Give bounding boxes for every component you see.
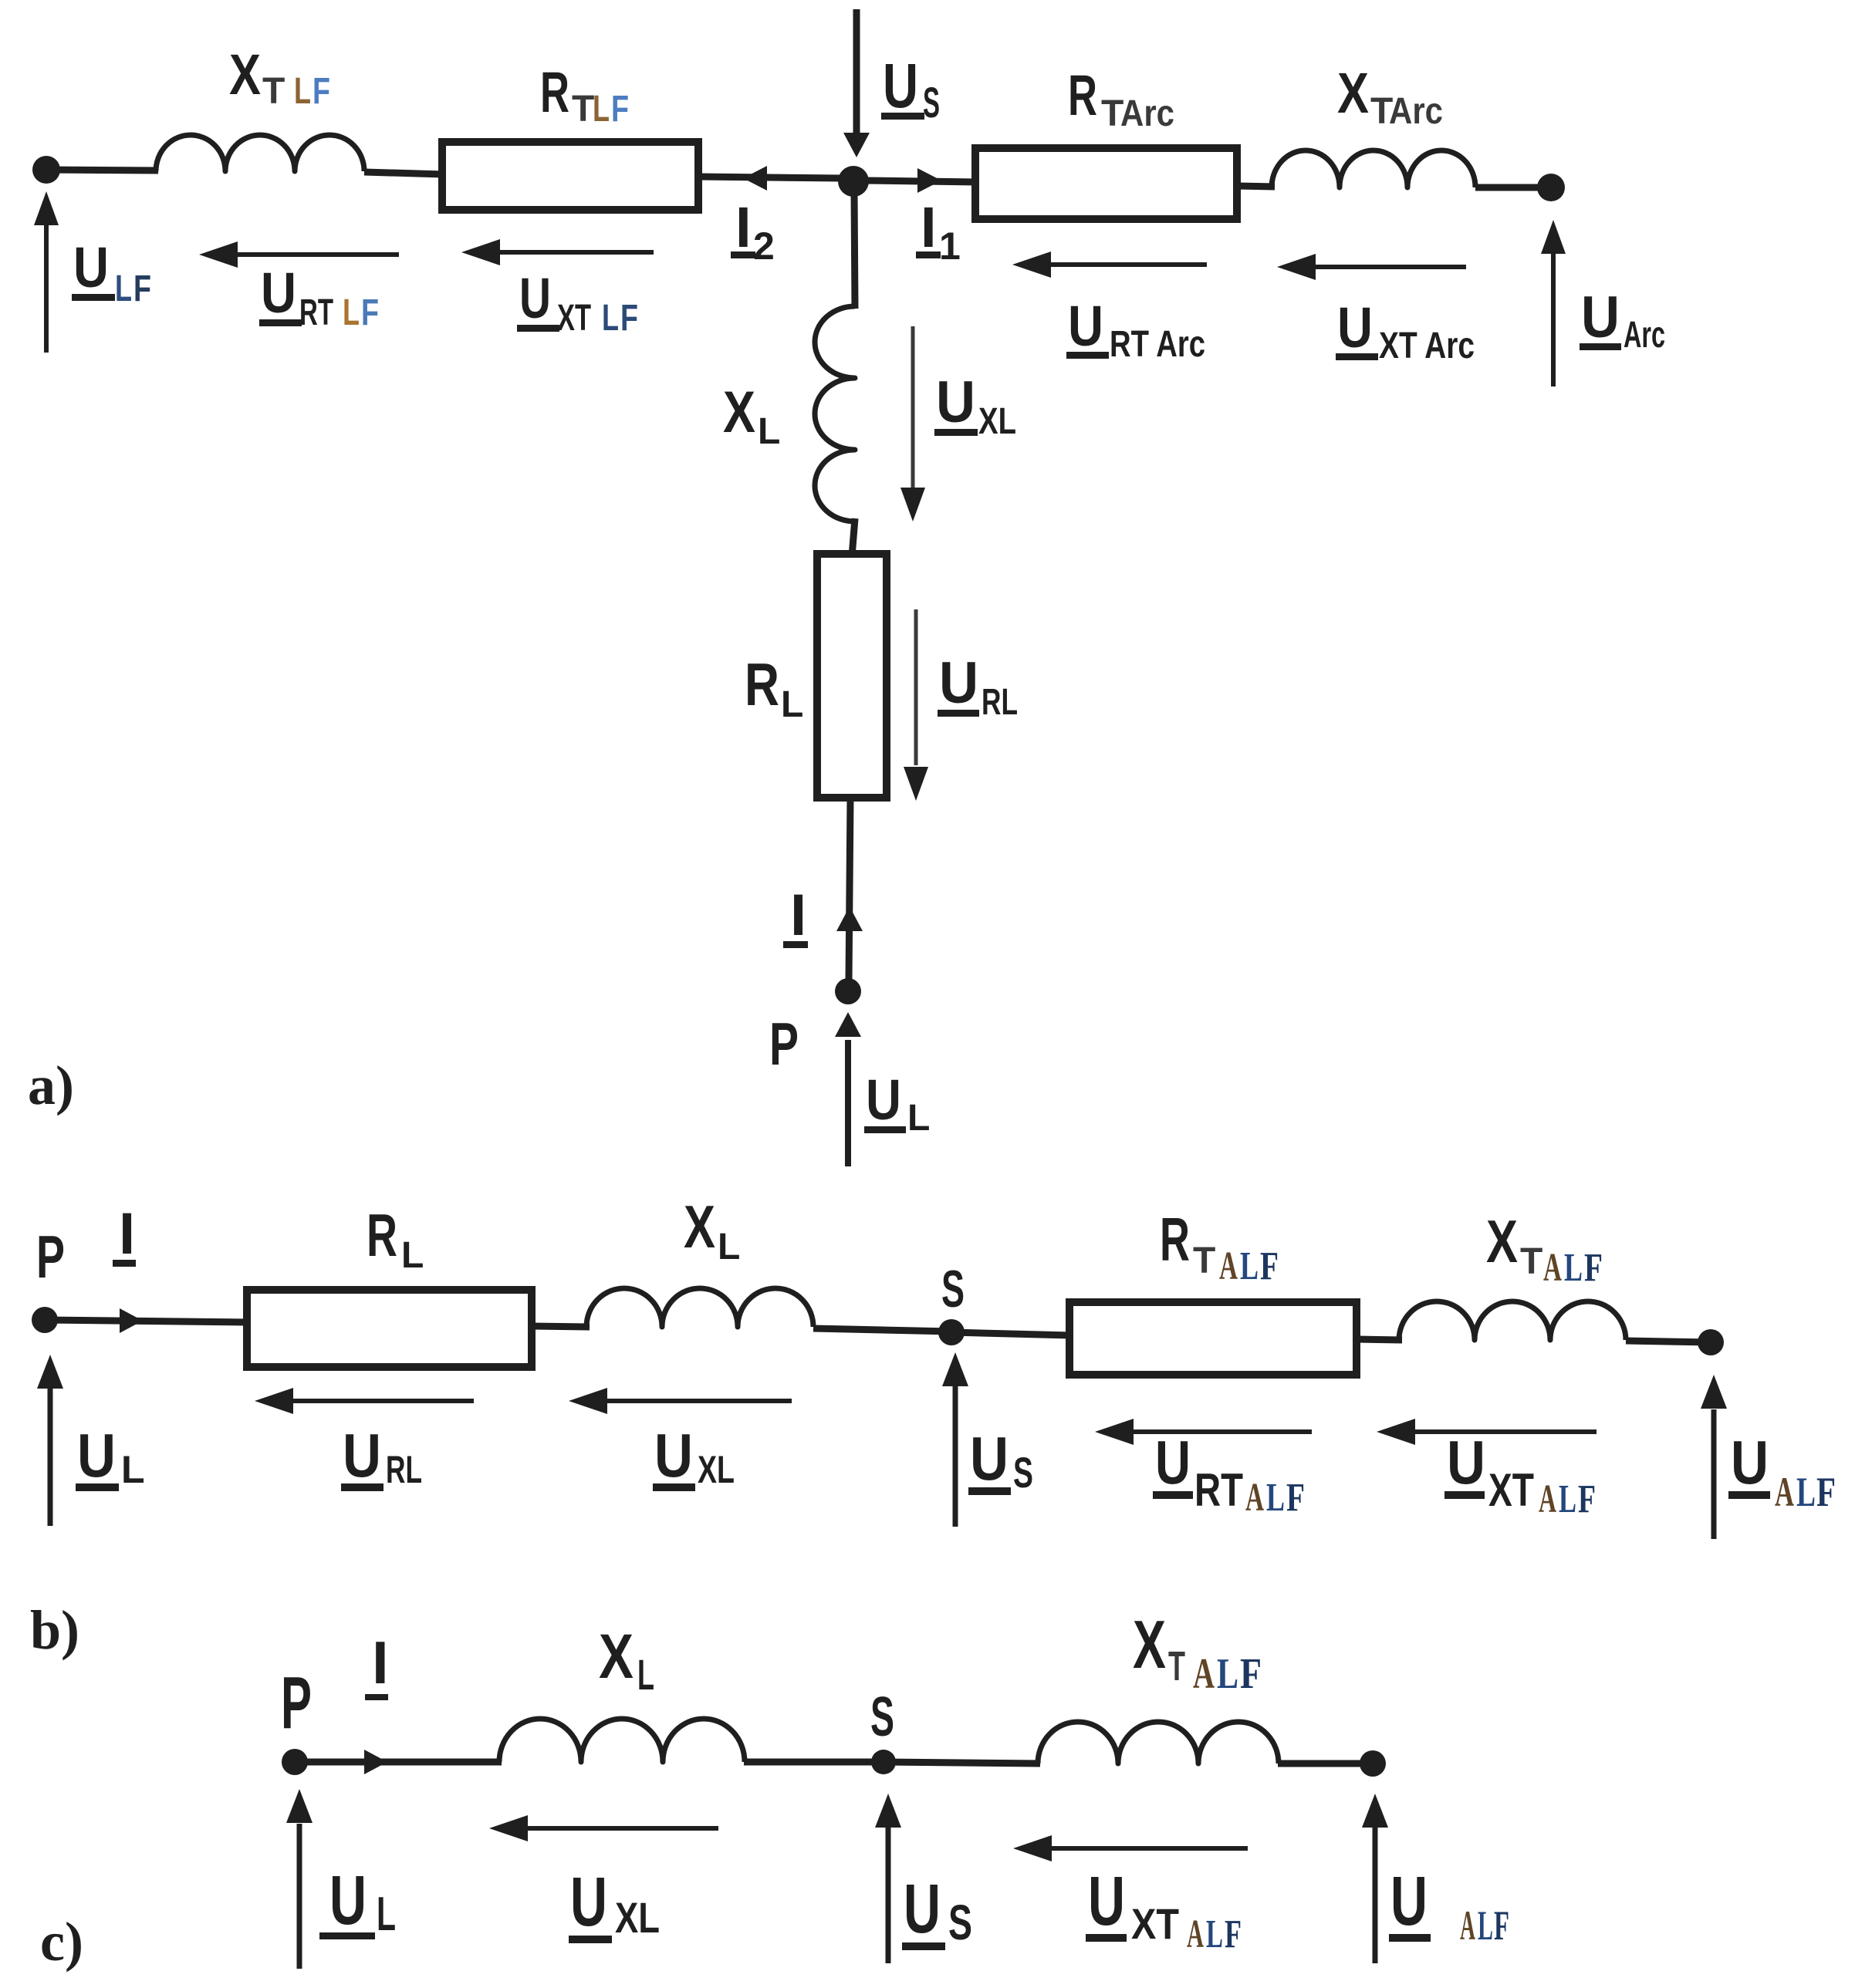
- svg-text:U: U: [970, 1424, 1009, 1493]
- svg-text:X: X: [1337, 61, 1369, 125]
- svg-text:U: U: [1155, 1428, 1191, 1497]
- svg-text:P: P: [281, 1662, 312, 1744]
- svg-text:U: U: [1447, 1428, 1485, 1497]
- svg-text:RT: RT: [299, 292, 333, 333]
- svg-text:S: S: [1013, 1448, 1033, 1497]
- svg-text:I: I: [735, 195, 752, 259]
- svg-text:R: R: [540, 60, 569, 124]
- svg-text:U: U: [1390, 1863, 1428, 1940]
- svg-text:F: F: [1584, 1246, 1603, 1290]
- svg-text:R: R: [1160, 1205, 1190, 1274]
- svg-text:L: L: [343, 292, 360, 333]
- svg-text:XT: XT: [557, 298, 591, 339]
- svg-text:F: F: [1260, 1244, 1279, 1288]
- svg-text:U: U: [1731, 1428, 1769, 1497]
- svg-text:L: L: [401, 1235, 424, 1276]
- svg-text:T: T: [1520, 1241, 1542, 1282]
- svg-text:Arc: Arc: [1120, 93, 1174, 134]
- svg-text:b): b): [30, 1599, 79, 1661]
- svg-text:XL: XL: [978, 401, 1016, 442]
- svg-text:F: F: [133, 268, 151, 309]
- svg-text:T: T: [572, 89, 594, 130]
- svg-text:U: U: [1337, 295, 1373, 359]
- svg-text:F: F: [313, 71, 330, 112]
- svg-text:A: A: [1245, 1476, 1264, 1520]
- svg-text:T: T: [262, 71, 285, 112]
- svg-text:1: 1: [939, 224, 961, 268]
- svg-text:F: F: [1816, 1469, 1836, 1515]
- svg-text:U: U: [654, 1421, 693, 1490]
- svg-text:L: L: [1564, 1246, 1583, 1290]
- svg-text:A: A: [1219, 1244, 1238, 1288]
- svg-text:U: U: [519, 266, 551, 330]
- svg-text:U: U: [77, 1421, 116, 1490]
- svg-text:F: F: [620, 298, 638, 339]
- svg-text:L: L: [602, 298, 619, 339]
- svg-text:A: A: [1193, 1650, 1215, 1698]
- svg-text:P: P: [36, 1223, 65, 1291]
- svg-text:F: F: [1494, 1902, 1509, 1949]
- svg-text:R: R: [1068, 63, 1097, 127]
- svg-text:I: I: [119, 1201, 135, 1267]
- svg-text:Arc: Arc: [1389, 91, 1443, 132]
- svg-text:I: I: [790, 883, 806, 948]
- svg-text:c): c): [40, 1911, 83, 1973]
- svg-text:T: T: [1168, 1643, 1185, 1689]
- svg-text:A: A: [1187, 1912, 1204, 1956]
- svg-text:L: L: [781, 684, 803, 725]
- svg-text:RL: RL: [386, 1448, 422, 1491]
- svg-text:F: F: [361, 292, 379, 333]
- svg-text:S: S: [870, 1686, 894, 1748]
- svg-text:X: X: [684, 1193, 715, 1261]
- svg-text:X: X: [1486, 1207, 1518, 1275]
- svg-text:RT Arc: RT Arc: [1110, 324, 1205, 365]
- svg-text:X: X: [599, 1622, 634, 1692]
- svg-text:L: L: [593, 89, 610, 130]
- svg-text:U: U: [936, 370, 975, 435]
- svg-text:R: R: [745, 650, 779, 718]
- svg-text:L: L: [637, 1650, 654, 1699]
- svg-text:U: U: [1581, 285, 1620, 350]
- svg-text:F: F: [611, 89, 629, 130]
- svg-text:L: L: [294, 71, 311, 112]
- svg-text:2: 2: [753, 224, 775, 268]
- svg-text:F: F: [1578, 1477, 1596, 1521]
- svg-text:I: I: [921, 195, 937, 259]
- svg-text:RL: RL: [982, 682, 1018, 723]
- svg-text:U: U: [866, 1068, 901, 1132]
- svg-text:U: U: [73, 235, 109, 299]
- svg-text:U: U: [1068, 294, 1103, 358]
- svg-text:A: A: [1543, 1246, 1562, 1290]
- svg-text:L: L: [1796, 1469, 1816, 1515]
- svg-text:A: A: [1539, 1477, 1556, 1521]
- svg-text:T: T: [1193, 1240, 1215, 1281]
- svg-text:L: L: [1240, 1244, 1259, 1288]
- svg-text:XL: XL: [615, 1893, 660, 1942]
- svg-text:S: S: [941, 1260, 965, 1318]
- svg-text:U: U: [261, 261, 296, 325]
- svg-text:L: L: [758, 411, 780, 452]
- svg-text:L: L: [1266, 1476, 1285, 1520]
- svg-text:U: U: [904, 1871, 941, 1948]
- svg-text:RT: RT: [1194, 1464, 1243, 1516]
- svg-text:XL: XL: [698, 1448, 735, 1491]
- svg-text:X: X: [723, 380, 755, 445]
- svg-text:L: L: [718, 1227, 740, 1267]
- svg-text:L: L: [1217, 1650, 1238, 1698]
- svg-text:XT: XT: [1488, 1464, 1534, 1516]
- svg-text:U: U: [329, 1862, 367, 1939]
- svg-text:L: L: [1206, 1912, 1223, 1956]
- svg-text:F: F: [1286, 1476, 1305, 1520]
- svg-text:S: S: [923, 78, 940, 127]
- svg-text:XT Arc: XT Arc: [1379, 326, 1475, 366]
- svg-text:L: L: [1559, 1477, 1576, 1521]
- svg-text:S: S: [948, 1895, 972, 1950]
- svg-text:L: L: [121, 1448, 145, 1491]
- svg-text:XT: XT: [1131, 1899, 1179, 1948]
- svg-text:U: U: [883, 51, 918, 121]
- svg-text:X: X: [229, 42, 261, 106]
- svg-text:F: F: [1225, 1912, 1242, 1956]
- svg-text:U: U: [343, 1421, 381, 1490]
- svg-text:L: L: [115, 268, 132, 309]
- svg-text:L: L: [377, 1888, 396, 1941]
- svg-text:A: A: [1460, 1902, 1475, 1949]
- svg-text:L: L: [907, 1098, 930, 1139]
- svg-text:F: F: [1240, 1650, 1262, 1698]
- svg-text:R: R: [367, 1201, 397, 1269]
- svg-text:U: U: [1088, 1863, 1125, 1940]
- svg-text:I: I: [372, 1629, 389, 1696]
- svg-text:P: P: [769, 1010, 799, 1078]
- svg-text:L: L: [1478, 1902, 1493, 1949]
- svg-text:Arc: Arc: [1624, 315, 1665, 356]
- svg-text:a): a): [28, 1055, 74, 1116]
- svg-text:U: U: [570, 1864, 607, 1941]
- svg-text:U: U: [939, 650, 978, 716]
- svg-text:X: X: [1133, 1606, 1166, 1683]
- svg-text:A: A: [1775, 1469, 1794, 1515]
